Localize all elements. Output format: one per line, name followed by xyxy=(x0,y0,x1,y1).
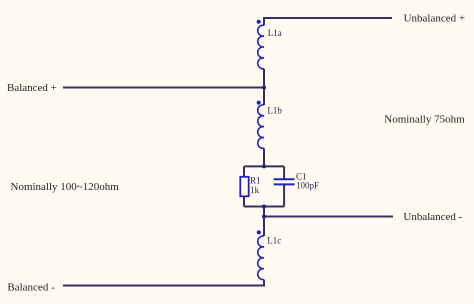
wire: Balanced + horizontal xyxy=(63,87,264,89)
node: L1c polarity dot xyxy=(257,230,261,234)
wire: RC bottom to Unbalanced- junction xyxy=(263,207,265,237)
capacitor C1 xyxy=(274,178,295,180)
wire: right leg above capacitor xyxy=(283,166,285,179)
svg-text:1k: 1k xyxy=(250,185,260,195)
node: junction bottom of RC xyxy=(262,205,266,209)
svg-text:L1b: L1b xyxy=(267,106,282,116)
svg-text:Nominally 75ohm: Nominally 75ohm xyxy=(384,113,465,125)
svg-text:Nominally 100~120ohm: Nominally 100~120ohm xyxy=(11,181,120,193)
node: junction Balanced+/L1a/L1b xyxy=(262,86,266,90)
inductor L1b xyxy=(258,105,264,149)
wire: right leg below capacitor xyxy=(283,184,285,206)
wire: L1c bottom corner to Balanced - xyxy=(63,280,264,286)
node: L1b polarity dot xyxy=(257,101,261,105)
svg-text:100pF: 100pF xyxy=(296,180,319,190)
svg-text:R1: R1 xyxy=(250,175,261,185)
resistor R1 xyxy=(240,177,248,197)
wire: top horizontal to Unbalanced + xyxy=(264,18,392,25)
svg-text:L1c: L1c xyxy=(267,236,281,246)
svg-text:Unbalanced -: Unbalanced - xyxy=(403,211,462,223)
node: junction Unbalanced- xyxy=(262,215,266,219)
wire: L1a bottom to Balanced+ junction xyxy=(263,69,265,105)
svg-text:L1a: L1a xyxy=(268,28,282,38)
svg-text:Balanced +: Balanced + xyxy=(7,82,57,94)
svg-text:Unbalanced +: Unbalanced + xyxy=(404,13,465,25)
wire: Unbalanced - horizontal xyxy=(264,216,393,218)
wire: left leg below resistor xyxy=(243,196,245,206)
inductor L1a xyxy=(258,25,264,69)
svg-text:Balanced -: Balanced - xyxy=(7,282,55,294)
node: junction top of RC xyxy=(262,164,266,168)
inductor L1c xyxy=(258,236,264,280)
node: L1a polarity dot xyxy=(257,20,261,24)
wire: RC loop bottom rail xyxy=(244,206,284,208)
wire: RC loop top rail xyxy=(244,165,284,167)
wire: L1b bottom to RC top junction xyxy=(263,148,265,166)
wire: left leg above resistor xyxy=(243,166,245,176)
